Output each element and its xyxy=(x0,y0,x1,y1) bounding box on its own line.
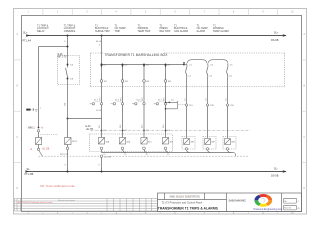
inner border xyxy=(22,16,302,212)
svg-text:30D: 30D xyxy=(169,141,173,143)
svg-text:SL-: SL- xyxy=(274,167,278,170)
sheet ref arrow left xyxy=(26,109,30,111)
outer frame xyxy=(14,9,307,215)
hump jumper alarm 2 xyxy=(208,60,228,64)
tap arrow branch 4 xyxy=(164,65,166,67)
wire drop to SL- xyxy=(101,157,103,171)
terminal2 trip branch 4 xyxy=(156,103,158,105)
label SL- left xyxy=(25,168,34,176)
wire alarm branch 2 lower xyxy=(207,106,209,138)
svg-text:T1+T2 Protection and Control: T1+T2 Protection and Control Panel xyxy=(162,201,203,205)
tap arrow branch 1 xyxy=(100,65,102,67)
dashed diag branch 3 xyxy=(132,103,135,105)
terminal circle collector xyxy=(100,155,102,157)
logo ring xyxy=(254,194,272,207)
wire alarm branch 2 serpentine xyxy=(207,64,209,104)
coil 30 branch 2 xyxy=(119,138,125,145)
wire alarm branch 1 lower xyxy=(186,106,188,138)
terminal low alarm 1 xyxy=(185,148,187,150)
contact 86 operate xyxy=(66,65,68,119)
svg-text:30E: 30E xyxy=(190,141,194,143)
svg-text:Rev Sh.: Rev Sh. xyxy=(284,208,292,210)
wire alarm branch 1 serpentine xyxy=(186,64,188,104)
svg-text:DS-0B: DS-0B xyxy=(271,39,279,42)
svg-text:C: C xyxy=(303,136,305,139)
arrow SL- right xyxy=(283,170,287,173)
junction branch1 tee xyxy=(67,46,69,48)
svg-text:86T1: 86T1 xyxy=(72,141,78,143)
revision table xyxy=(15,199,158,212)
coil 86 lockout xyxy=(65,138,72,145)
terminal trip branch 2 xyxy=(121,103,123,105)
label E-30 group xyxy=(86,126,94,131)
svg-text:C5D: C5D xyxy=(230,105,235,107)
svg-text:S1-06: S1-06 xyxy=(96,41,103,43)
tap arrow branch 2 xyxy=(121,65,123,67)
contact trip branch 1 xyxy=(100,80,103,83)
svg-text:C1D: C1D xyxy=(189,105,194,107)
svg-text:TRANSFORMER T1 TRIPS & ALARMS: TRANSFORMER T1 TRIPS & ALARMS xyxy=(158,206,219,210)
number fields xyxy=(284,198,297,210)
terminal under coil branch 1 xyxy=(100,147,103,150)
wire alarm branch 3 lower xyxy=(227,106,229,138)
svg-text:K3: K3 xyxy=(146,130,148,132)
svg-text:SABI MAKING: SABI MAKING xyxy=(229,198,246,202)
dashed link MB xyxy=(40,134,58,136)
junction drop SL- xyxy=(100,170,102,172)
junction press rel bottom xyxy=(165,108,167,110)
wire trip branch 2 xyxy=(122,65,124,139)
svg-text:D: D xyxy=(16,187,18,190)
node SL- bus xyxy=(26,171,287,173)
junction feeder end xyxy=(183,64,185,66)
terminal under coil branch 2 xyxy=(121,147,124,150)
svg-text:TEMP TRIP: TEMP TRIP xyxy=(138,30,151,33)
frame numbers top xyxy=(28,10,295,13)
terminal trip branch 4 xyxy=(164,103,166,105)
hump jumper alarm 1 xyxy=(187,60,207,64)
terminal low alarm 3 xyxy=(226,148,228,150)
marshalling box dashed xyxy=(91,53,285,87)
coil alarm 3 xyxy=(225,139,231,145)
labels cable lower mid xyxy=(99,124,170,132)
sheet ref tick xyxy=(32,108,34,111)
frame reference ticks xyxy=(14,9,308,215)
svg-text:C: C xyxy=(16,136,18,139)
svg-text:GAS ALARM: GAS ALARM xyxy=(174,30,188,33)
svg-text:D: D xyxy=(303,187,305,190)
svg-text:K4: K4 xyxy=(168,130,170,132)
svg-text:K1: K1 xyxy=(104,130,106,132)
svg-text:A0 2023-06-01 Preliminary issu: A0 2023-06-01 Preliminary issue for revi… xyxy=(18,201,53,204)
terminal2 trip branch 2 xyxy=(113,103,115,105)
press rel stub upper xyxy=(166,101,178,103)
junction dash row branch 4 xyxy=(165,130,167,132)
coil alarm 1 xyxy=(184,139,190,145)
dashed row mid xyxy=(91,130,251,132)
terminal2 trip branch 3 xyxy=(135,103,137,105)
svg-text:86T1-T5: 86T1-T5 xyxy=(60,154,69,156)
tap arrow branch 3 xyxy=(143,65,145,67)
label under coils xyxy=(103,154,170,156)
wire feeder xyxy=(102,64,185,66)
label SL+ right xyxy=(271,31,279,42)
relay box E-06 dashed xyxy=(58,56,80,85)
header labels xyxy=(37,24,229,32)
frame letters right xyxy=(303,33,305,190)
dashed link to alarm1 xyxy=(178,104,185,106)
svg-text:ALARM: ALARM xyxy=(197,30,205,33)
label E-06 xyxy=(58,54,67,59)
junction branch1 lower tee xyxy=(67,118,69,120)
wire trip branch 3 xyxy=(143,65,145,139)
arrow SL+ left xyxy=(26,34,30,37)
title block frame xyxy=(158,193,302,212)
press rel bar xyxy=(176,101,178,104)
coil box alarm 2 dashed xyxy=(203,137,216,150)
collector dashed long xyxy=(39,155,250,157)
node SL+ bus xyxy=(27,35,286,37)
junction feeder start xyxy=(101,64,103,66)
svg-text:SL+: SL+ xyxy=(274,31,279,34)
svg-text:DS-0B: DS-0B xyxy=(271,174,279,177)
svg-text:E-30: E-30 xyxy=(86,126,92,128)
svg-text:SL+: SL+ xyxy=(23,31,28,34)
svg-text:PTL.A4: PTL.A4 xyxy=(23,40,32,43)
junction contact bottom xyxy=(67,78,69,80)
wire trip branch 4 xyxy=(165,65,167,139)
svg-text:TRIP: TRIP xyxy=(115,30,121,33)
svg-text:K2: K2 xyxy=(125,130,127,132)
terminal alarm branch 2 xyxy=(206,104,208,106)
frame numbers bottom xyxy=(28,212,295,215)
label SL+ left xyxy=(23,31,32,42)
frame letters left xyxy=(16,33,18,190)
dashed diag branch 4 xyxy=(154,103,157,105)
junction MB xyxy=(38,127,40,129)
junction trip branch 1 xyxy=(101,64,103,66)
svg-text:Sh.: Sh. xyxy=(284,201,288,203)
contact trip branch 2 xyxy=(121,80,124,83)
coil box alarm 3 dashed xyxy=(223,137,236,150)
tap arrow feeder end xyxy=(183,62,185,64)
wire branch1 drop xyxy=(39,36,68,128)
svg-text:REL TRIP: REL TRIP xyxy=(160,30,171,33)
svg-text:30A: 30A xyxy=(105,140,109,143)
svg-text:TRANSFORMER T1 MARSHALLING BOX: TRANSFORMER T1 MARSHALLING BOX xyxy=(105,53,169,57)
terminal under coil branch 3 xyxy=(143,147,146,150)
svg-text:30G: 30G xyxy=(231,141,235,143)
coil box alarm 1 dashed xyxy=(182,137,195,150)
coil MB xyxy=(36,138,42,145)
svg-text:X1.5: X1.5 xyxy=(136,99,140,101)
alarm collector chain xyxy=(187,150,236,156)
wire MB lower xyxy=(38,145,40,149)
svg-text:+0L.DB: +0L.DB xyxy=(42,148,50,150)
terminal trip branch 3 xyxy=(143,103,145,105)
svg-text:SURGE TRIP: SURGE TRIP xyxy=(95,30,110,33)
svg-text:MB6.1: MB6.1 xyxy=(28,128,35,130)
svg-text:30B: 30B xyxy=(126,141,130,143)
svg-text:RELAY: RELAY xyxy=(37,30,45,33)
junction trip branch 3 xyxy=(143,64,145,66)
svg-text:PTL.DB: PTL.DB xyxy=(25,173,34,176)
wire alarm branch 3 serpentine xyxy=(227,64,229,104)
label contact pins xyxy=(70,65,74,81)
junction dash row branch 1 xyxy=(101,130,103,132)
svg-text:X1.3: X1.3 xyxy=(115,99,119,101)
svg-text:Revision description: Revision description xyxy=(58,199,75,202)
junction trip branch 2 xyxy=(122,64,124,66)
coil alarm 2 xyxy=(205,139,211,145)
wire MB mid xyxy=(38,132,40,138)
wire branch1 lower xyxy=(67,119,69,172)
press rel stub arrow xyxy=(167,101,170,103)
arrow SL+ right xyxy=(283,34,287,37)
svg-text:X1.1: X1.1 xyxy=(94,99,98,101)
junction branch3 bus xyxy=(101,35,103,37)
junction dash row branch 3 xyxy=(143,130,145,132)
junction contact top xyxy=(67,64,69,66)
relay group box dashed xyxy=(90,134,173,152)
collector solid xyxy=(102,150,234,153)
terminal alarm branch 1 xyxy=(185,104,187,106)
terminal circle MB bottom xyxy=(37,148,39,150)
dashed diag branch 2 xyxy=(111,103,114,105)
terminal under coil 86 xyxy=(66,147,69,150)
terminal under coil branch 4 xyxy=(164,147,167,150)
svg-text:SL-: SL- xyxy=(27,168,31,171)
junction trip branch 4 xyxy=(165,64,167,66)
svg-text:+0L.DB: +0L.DB xyxy=(104,157,112,159)
wire feeder to alarm1 xyxy=(184,63,187,66)
svg-text:OPERATE: OPERATE xyxy=(64,30,76,33)
arrow SL- left xyxy=(25,170,29,173)
contact trip branch 3 xyxy=(143,80,146,83)
svg-text:30C: 30C xyxy=(148,141,152,143)
svg-text:SABI 33/11kV SUBSTATION: SABI 33/11kV SUBSTATION xyxy=(169,196,200,199)
svg-text:86T1-T5: 86T1-T5 xyxy=(58,56,67,58)
wire trip branch 1 xyxy=(101,65,103,139)
sheet ref link dashes xyxy=(31,109,38,111)
svg-text:Powered Engineering Ltd: Powered Engineering Ltd xyxy=(253,208,282,211)
dashed diag branch 1 xyxy=(90,103,93,105)
svg-text:X1.7: X1.7 xyxy=(158,99,162,101)
svg-text:X1.06: X1.06 xyxy=(96,110,102,112)
svg-text:C3D: C3D xyxy=(210,105,215,107)
junction press rel top xyxy=(165,102,167,104)
junction dash row branch 2 xyxy=(122,130,124,132)
terminal circle MB top xyxy=(37,130,39,132)
coil 30 branch 4 xyxy=(162,138,168,145)
junction branch1 bus xyxy=(67,35,69,37)
junction branch1 SL- xyxy=(66,170,68,172)
svg-text:+0L.TB: +0L.TB xyxy=(86,129,94,131)
wire tee to branch3 xyxy=(68,118,102,120)
terminal alarm branch 3 xyxy=(226,104,228,106)
terminal2 trip branch 1 xyxy=(92,103,94,105)
contact trip branch 4 xyxy=(164,80,167,83)
press rel stub lower xyxy=(166,104,178,109)
slant MB to dashed xyxy=(39,151,43,157)
wire branch3 drop xyxy=(101,36,103,65)
svg-text:1: 1 xyxy=(40,108,41,110)
terminal low alarm 2 xyxy=(206,148,208,150)
terminal trip branch 1 xyxy=(100,103,102,105)
coil 30 branch 3 xyxy=(141,138,147,145)
svg-text:KK: To be confirmed on site: KK: To be confirmed on site xyxy=(41,184,76,188)
coil 30 branch 1 xyxy=(98,138,104,145)
svg-text:TEMP ALARM: TEMP ALARM xyxy=(213,30,229,33)
label SL- right xyxy=(271,167,279,177)
